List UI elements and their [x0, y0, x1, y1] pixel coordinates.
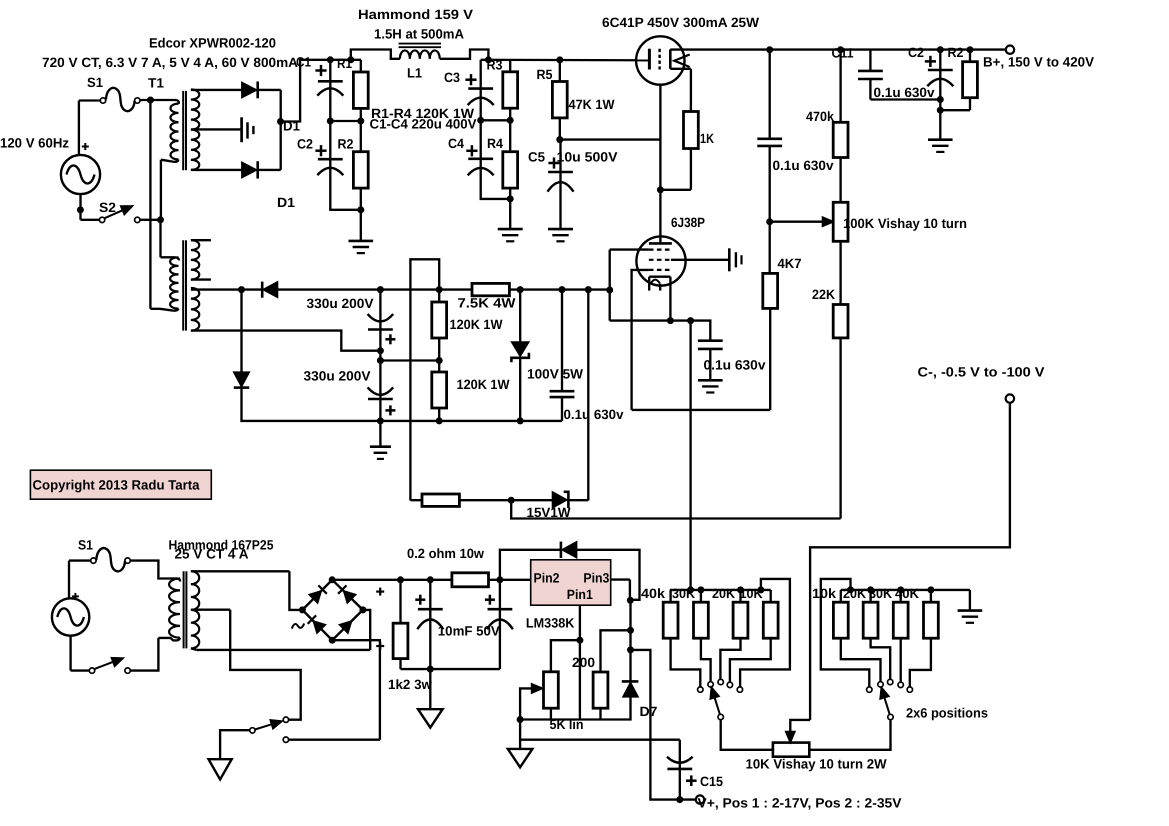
label C15 — [700, 774, 723, 789]
wire cathode to bias node — [669, 277, 671, 321]
label 0.1u 630v near C11 — [874, 85, 935, 100]
capacitor 0.1u 630v grid bias — [698, 341, 723, 381]
svg-text:0.1u 630v: 0.1u 630v — [874, 85, 935, 100]
wire arrow to 100K pot wiper — [770, 217, 834, 226]
wire caps bottom rail — [401, 666, 500, 673]
svg-text:120 V 60Hz: 120 V 60Hz — [0, 136, 69, 151]
rotary switch left — [710, 687, 723, 720]
svg-text:D1: D1 — [283, 119, 300, 134]
wire source bottom to S2 — [77, 194, 100, 220]
bias transformer secondary lower — [191, 288, 199, 331]
ground below bias cap — [698, 380, 723, 392]
label D1 lower — [277, 195, 296, 210]
bias transformer primary — [150, 257, 178, 310]
triode 6C41P — [636, 36, 691, 84]
pentode 6J38P plate — [649, 242, 672, 245]
wire to lower bias diode — [240, 290, 242, 373]
label 1k2 3w — [388, 677, 432, 692]
wire secondary center tap — [191, 610, 301, 720]
diode D7 — [622, 681, 639, 696]
label 6J38P — [671, 215, 705, 230]
label 22K — [812, 287, 835, 302]
6J38P grid 1 — [610, 249, 671, 251]
wire Pin3 column — [627, 600, 634, 681]
wire jog to L1 — [351, 50, 400, 60]
wire bottom rail — [380, 417, 562, 424]
label 470k — [806, 109, 834, 124]
svg-text:4K7: 4K7 — [778, 256, 802, 271]
label 0.1u 630v mid column — [773, 158, 834, 173]
svg-text:120K 1W: 120K 1W — [450, 317, 503, 332]
regulator LM338K box — [531, 560, 611, 605]
label 25 V CT 4 A — [175, 547, 249, 562]
svg-text:L1: L1 — [407, 66, 422, 81]
contact left 5 — [737, 687, 742, 692]
diode D1 top — [242, 82, 281, 99]
label 30K right — [869, 586, 892, 601]
resistor 15V string — [410, 494, 552, 506]
wire R5 C5 node to 6C41P grid — [560, 138, 661, 140]
capacitor C2 output — [925, 50, 954, 114]
label 2x6 positions — [906, 706, 988, 721]
svg-text:25 V CT 4 A: 25 V CT 4 A — [175, 547, 249, 562]
svg-text:C5: C5 — [528, 150, 545, 165]
wire cap to C2 bottom node — [870, 96, 943, 103]
label 0.1u 630v stack cap — [564, 407, 624, 422]
terminal V+ — [696, 795, 704, 803]
label C1 — [296, 55, 311, 70]
resistor 470k — [833, 50, 848, 203]
wire T1 center tap — [191, 128, 241, 130]
capacitor C5 — [548, 140, 574, 230]
contact CT position 1 — [283, 717, 288, 722]
svg-text:15V1W: 15V1W — [527, 505, 571, 520]
plus sign lower source — [72, 593, 79, 600]
label L1 — [407, 66, 422, 81]
resistor 30K — [694, 590, 711, 682]
svg-text:47K 1W: 47K 1W — [569, 97, 615, 112]
capacitor C15 — [667, 740, 697, 800]
ground triangle 5K — [508, 749, 533, 767]
svg-text:1K: 1K — [700, 131, 714, 146]
wire C- terminal to wiper — [810, 403, 1010, 720]
switch S2 — [99, 206, 140, 223]
wire 15V node to 22K bottom — [511, 500, 840, 518]
svg-text:R2: R2 — [948, 45, 964, 60]
wire T1 hot feed to bias transformer — [149, 100, 151, 309]
label S1 lower — [78, 538, 93, 553]
ground below 330u caps — [370, 421, 391, 459]
svg-text:720 V CT, 6.3 V 7 A, 5 V 4 A,: 720 V CT, 6.3 V 7 A, 5 V 4 A, 60 V 800mA — [42, 55, 298, 70]
plus sign bridge output — [376, 588, 384, 596]
wire ground rail to C15 — [520, 739, 680, 741]
capacitor 0.1u 630v mid column — [757, 50, 782, 226]
resistor R2 — [353, 121, 368, 213]
wire switch to transformer primary bottom — [130, 638, 158, 671]
svg-text:C-, -0.5 V to -100 V: C-, -0.5 V to -100 V — [918, 365, 1045, 380]
diode D1 bottom — [242, 161, 281, 178]
label B+ 150V to 420V — [983, 55, 1094, 70]
inductor L1 — [400, 50, 440, 58]
label 1.5H at 500mA — [374, 27, 464, 42]
wire L1 to C3 R3 rail — [440, 50, 492, 64]
label R3 — [487, 57, 503, 72]
label 6C41P 450V 300mA 25W — [602, 15, 759, 30]
wire T1 secondary bottom to D1 — [191, 169, 242, 171]
wire B+ rail — [670, 46, 1005, 53]
diode LM338 bypass — [500, 542, 640, 600]
label 120K 1W lower — [457, 377, 510, 392]
label 10u 500V — [557, 150, 618, 165]
svg-text:Pin1: Pin1 — [567, 587, 593, 602]
contact right 2 — [878, 682, 883, 687]
svg-text:1.5H at 500mA: 1.5H at 500mA — [374, 27, 464, 42]
wire source to S1 — [79, 101, 100, 155]
copyright box — [30, 470, 211, 499]
transformer 167P25 primary — [158, 579, 180, 641]
wire bias winding to rectifier diode — [194, 286, 262, 293]
label Hammond 159V — [358, 7, 473, 22]
svg-text:T1: T1 — [148, 76, 164, 91]
wire bridge positive rail — [332, 576, 531, 583]
wiper arrow 5K — [520, 684, 543, 720]
svg-text:Copyright 2013 Radu Tarta: Copyright 2013 Radu Tarta — [33, 478, 200, 493]
wire left rotor to 10K pot — [721, 720, 773, 750]
svg-text:10k: 10k — [812, 586, 837, 601]
wire CT contact row feed — [289, 739, 380, 741]
capacitor 0.1u 630v stack — [550, 290, 575, 421]
capacitor 330u 200V lower — [368, 361, 396, 425]
label 100V 5W — [527, 367, 583, 382]
label 120 V 60Hz — [0, 136, 69, 151]
wire 5K bottom rail — [517, 697, 631, 723]
resistor 120K 1W upper — [432, 290, 447, 364]
label C4 — [448, 136, 464, 151]
zener 15V1W — [553, 492, 589, 508]
capacitor 0.1u 630v near C11 — [858, 50, 883, 100]
label C5 — [528, 150, 545, 165]
svg-text:0.1u 630v: 0.1u 630v — [564, 407, 624, 422]
wire bias winding bottom — [191, 331, 384, 355]
ground below R4 — [498, 199, 523, 241]
contact left 2 — [708, 682, 713, 687]
wire output to V+ terminal — [631, 650, 696, 803]
svg-text:Pin2: Pin2 — [534, 570, 560, 585]
resistor R4 — [503, 120, 518, 202]
ground below C5 — [548, 229, 573, 241]
wire S2 feed to bias transformer — [161, 220, 176, 257]
fuse S1 — [100, 88, 140, 111]
label C3 — [444, 70, 460, 85]
resistor 120K 1W lower — [432, 361, 447, 425]
label 1K — [700, 131, 714, 146]
contact left 4 — [727, 682, 732, 687]
label 120K 1W upper — [450, 317, 503, 332]
label Hammond 167P25 — [169, 538, 274, 553]
transformer T1 primary winding — [161, 100, 179, 220]
ground right bank — [958, 590, 983, 623]
6J38P grid 3 wire — [632, 270, 671, 410]
wire HV rail at C1 R1 — [327, 56, 361, 63]
wire bias feed down to divider bank — [689, 321, 691, 590]
contact right 3 — [888, 679, 893, 684]
resistor 10k right — [833, 590, 880, 682]
potentiometer 100K Vishay 10 turn — [833, 202, 848, 304]
transformer 167P25 core — [184, 571, 187, 648]
wire 6C41P grid to 6J38P plate — [659, 85, 661, 244]
label Edcor XPWR002-120 — [149, 36, 276, 51]
terminal C- — [1006, 394, 1014, 402]
svg-text:0.1u 630v: 0.1u 630v — [773, 158, 834, 173]
svg-text:330u 200V: 330u 200V — [304, 368, 371, 383]
resistor 30K right — [893, 590, 908, 682]
resistor 200 — [593, 630, 630, 719]
chassis center-tap symbol — [242, 117, 254, 142]
transformer T1 secondary winding — [191, 89, 199, 169]
wire secondary bottom to bridge — [191, 610, 370, 650]
wire bridge negative output — [332, 640, 380, 740]
resistor R2 bleeder — [940, 50, 977, 110]
svg-text:330u 200V: 330u 200V — [307, 296, 374, 311]
bridge diode lower right — [340, 615, 358, 633]
svg-text:20K: 20K — [712, 586, 735, 601]
capacitor 330u 200V upper — [368, 290, 396, 361]
contact right 5 — [907, 687, 912, 692]
bias transformer secondary upper — [191, 240, 211, 279]
label R2 bleeder — [948, 45, 964, 60]
switch lower mains — [89, 658, 130, 674]
wire 7.5K to grid column — [509, 286, 609, 293]
svg-text:C2: C2 — [908, 45, 924, 60]
capacitor C4 — [466, 120, 510, 199]
wire S2 to T1 primary bottom junction — [140, 216, 164, 223]
resistor 40k — [663, 590, 700, 687]
resistor 40K right — [910, 590, 939, 687]
label 10k right — [812, 586, 837, 601]
fuse S1 lower — [91, 548, 131, 571]
svg-text:470k: 470k — [806, 109, 834, 124]
wire D1 output node — [277, 90, 284, 170]
potentiometer 10K Vishay 2W — [773, 743, 809, 757]
wire bias node — [610, 317, 711, 341]
wire right bank bypass — [821, 579, 870, 687]
label T1 — [148, 76, 164, 91]
label 0.2 ohm 10w — [407, 546, 484, 561]
resistor 10K — [730, 590, 778, 682]
wire 630v loop to 4K7 — [632, 409, 771, 411]
resistor 0.2 ohm 10w — [452, 573, 489, 587]
label V+ positions — [698, 796, 902, 811]
label D7 — [640, 704, 658, 719]
wire fuse to transformer primary top — [130, 561, 170, 579]
chassis symbol grid 2 — [729, 248, 741, 271]
diode bias positive — [262, 282, 277, 298]
label C11 — [832, 46, 854, 61]
inductor L1 core — [399, 44, 441, 48]
label C1-C4 220u 400V — [370, 117, 477, 132]
ground triangle filter — [418, 669, 443, 728]
label 200 — [572, 655, 595, 670]
contact left 3 — [718, 679, 723, 684]
capacitor C3 — [465, 60, 493, 121]
transformer 167P25 secondary — [191, 571, 199, 648]
wiper feed 10K pot — [786, 720, 810, 743]
svg-text:C3: C3 — [444, 70, 460, 85]
label S2 — [99, 200, 116, 215]
capacitor C1 — [315, 60, 343, 121]
ground below C2 — [928, 110, 953, 152]
label R1-R4 120K 1W — [371, 106, 474, 121]
contact right 4 — [898, 682, 903, 687]
label C2 — [297, 136, 313, 151]
wire secondary top to bridge — [191, 571, 303, 610]
label 10mF 50V — [438, 624, 500, 639]
resistor R1 — [353, 60, 368, 121]
6J38P cathode and heater — [649, 277, 670, 291]
wire Pin1 adjust — [551, 605, 584, 719]
wire diode to bottom rail — [242, 388, 381, 421]
AC squiggle — [292, 624, 304, 629]
svg-text:R1: R1 — [337, 56, 352, 71]
svg-text:0.2 ohm 10w: 0.2 ohm 10w — [407, 546, 484, 561]
svg-text:0.1u 630v: 0.1u 630v — [704, 358, 767, 373]
svg-text:S1: S1 — [78, 538, 93, 553]
svg-text:D1: D1 — [277, 195, 296, 210]
bridge diode upper right — [338, 585, 356, 603]
contact right 1 — [867, 687, 872, 692]
contact left 1 — [698, 687, 703, 692]
svg-text:22K: 22K — [812, 287, 835, 302]
label 330u 200V lower — [304, 368, 371, 383]
svg-text:D7: D7 — [640, 704, 658, 719]
svg-text:120K 1W: 120K 1W — [457, 377, 510, 392]
wire 15V column — [587, 290, 589, 501]
label 4K7 — [778, 256, 802, 271]
zener 100V 5W — [511, 290, 529, 421]
svg-text:10u 500V: 10u 500V — [557, 150, 618, 165]
diode bias negative — [234, 372, 249, 387]
wire wiper to ground — [519, 720, 521, 749]
svg-text:S1: S1 — [87, 75, 103, 90]
wire left bank bypass — [740, 579, 790, 687]
svg-text:C1: C1 — [296, 55, 311, 70]
wire HV rail right section — [481, 56, 650, 63]
svg-text:C4: C4 — [448, 136, 464, 151]
label 10K Vishay 10 turn 2W — [746, 757, 887, 772]
svg-text:40k: 40k — [641, 586, 666, 601]
svg-text:1k2 3w: 1k2 3w — [388, 677, 432, 692]
label 20K right — [843, 586, 866, 601]
plus sign 120V source — [82, 143, 89, 150]
wire grid1 column to negative rail — [606, 250, 613, 321]
svg-text:100V 5W: 100V 5W — [527, 367, 583, 382]
svg-text:V+, Pos 1 : 2-17V, Pos 2 : 2-3: V+, Pos 1 : 2-17V, Pos 2 : 2-35V — [698, 796, 902, 811]
label C2 output cap — [908, 45, 924, 60]
svg-text:5K lin: 5K lin — [550, 717, 584, 732]
resistor 4K7 — [763, 273, 778, 410]
capacitor 10mF 50V first — [415, 580, 443, 669]
svg-text:30K: 30K — [869, 586, 892, 601]
label C- output text — [918, 365, 1045, 380]
wire lower source to switch — [71, 636, 90, 671]
svg-text:10K: 10K — [740, 586, 763, 601]
plus sign bridge lower — [376, 642, 384, 650]
ground triangle CT rotor — [209, 759, 232, 779]
resistor 7.5K 4W — [472, 283, 509, 295]
ground below R2 — [349, 210, 374, 253]
wire Pin3 output — [611, 580, 634, 604]
pentode 6J38P envelope — [636, 236, 685, 285]
wire to 4K7 — [769, 222, 771, 274]
svg-text:7.5K 4W: 7.5K 4W — [458, 296, 516, 311]
contact CT position 2 — [283, 737, 288, 742]
wire left bank top — [670, 586, 771, 593]
wire CT rotor to ground — [220, 730, 250, 759]
label R1 — [337, 56, 352, 71]
svg-text:10K Vishay 10 turn 2W: 10K Vishay 10 turn 2W — [746, 757, 887, 772]
svg-text:6C41P 450V 300mA 25W: 6C41P 450V 300mA 25W — [602, 15, 759, 30]
resistor 1k2 3w — [393, 580, 408, 669]
label 30K — [672, 586, 695, 601]
svg-text:Pin3: Pin3 — [583, 570, 609, 585]
svg-text:C2: C2 — [297, 136, 313, 151]
label 330u 200V upper — [307, 296, 374, 311]
wire pot to right rotor — [809, 720, 890, 750]
bridge diode lower left — [308, 615, 326, 633]
label 7.5K 4W — [458, 296, 516, 311]
wire T1 secondary top to D1 — [191, 89, 242, 91]
label D1 at rectifier node — [283, 119, 300, 134]
wire C3 R3 midpoint — [477, 117, 514, 124]
svg-text:10mF 50V: 10mF 50V — [438, 624, 500, 639]
label 100K Vishay 10 turn — [843, 216, 967, 231]
bridge rectifier diamond — [299, 576, 367, 643]
label S1 — [87, 75, 103, 90]
svg-text:B+, 150 V to 420V: B+, 150 V to 420V — [983, 55, 1094, 70]
AC source lower — [52, 598, 89, 635]
AC source 120V 60Hz — [61, 155, 100, 194]
svg-text:S2: S2 — [99, 200, 116, 215]
wire C1 R1 midpoint — [327, 118, 365, 125]
svg-text:R4: R4 — [487, 136, 503, 151]
svg-text:LM338K: LM338K — [526, 616, 575, 631]
label R4 — [487, 136, 503, 151]
svg-text:2x6 positions: 2x6 positions — [906, 706, 988, 721]
label R2 — [338, 136, 354, 151]
wire 120K midpoint — [377, 357, 439, 364]
rotary switch CT selector — [250, 720, 282, 733]
bias transformer core — [183, 240, 186, 330]
label R5 — [537, 67, 553, 82]
potentiometer 5K lin — [544, 672, 559, 720]
label LM338K — [526, 616, 575, 631]
svg-text:C15: C15 — [700, 774, 723, 789]
svg-text:40K: 40K — [895, 586, 919, 601]
wire lower source to fuse — [69, 561, 91, 599]
capacitor C2 — [315, 121, 360, 210]
label 0.1u 630v grid cap — [704, 358, 767, 373]
svg-text:C11: C11 — [832, 46, 854, 61]
wire negative rail to 7.5K — [278, 286, 473, 293]
label 20K — [712, 586, 735, 601]
svg-text:R2: R2 — [338, 136, 354, 151]
6J38P grid 2 to chassis — [649, 259, 729, 261]
resistor 20K right — [863, 590, 890, 680]
label 40K right — [895, 586, 919, 601]
wire loop top rail to 15V string — [410, 259, 439, 500]
svg-text:200: 200 — [572, 655, 595, 670]
svg-text:Edcor XPWR002-120: Edcor XPWR002-120 — [149, 36, 276, 51]
